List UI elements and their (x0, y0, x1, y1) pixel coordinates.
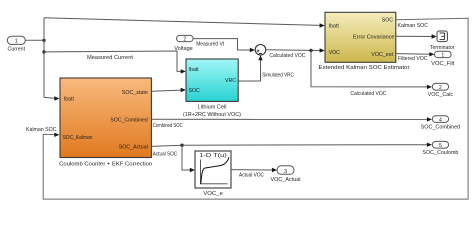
outport 4 SOC_Combined (421, 116, 461, 131)
wire Calculated VOC branch to outport 2 (311, 51, 432, 98)
wire Actual VOC to outport 3 (231, 168, 277, 179)
wire trunk vertical (43, 18, 45, 98)
svg-text:SOC_Kalman: SOC_Kalman (63, 135, 93, 141)
node junction trunk-measured-current (42, 50, 45, 53)
svg-text:Ibatt: Ibatt (189, 67, 200, 73)
outport 2 VOC_Calc (428, 83, 454, 98)
svg-text:Actual SOC: Actual SOC (153, 152, 178, 158)
wire Measured Current to Lithium Cell Ibatt (44, 51, 186, 74)
svg-text:Combined SOC: Combined SOC (153, 123, 183, 129)
wire top Ibatt feed to EKF (44, 18, 325, 28)
svg-text:5: 5 (439, 143, 442, 149)
svg-text:SOC_Combined: SOC_Combined (110, 117, 148, 123)
svg-text:Simulated VRC: Simulated VRC (262, 72, 294, 78)
wire SOC_state to Lithium Cell SOC (152, 88, 186, 92)
svg-text:SOC_Actual: SOC_Actual (119, 145, 148, 151)
svg-text:VOC_e: VOC_e (203, 191, 223, 197)
node junction trunk-inport1 (42, 39, 45, 42)
svg-text:Measured Current: Measured Current (87, 55, 134, 61)
wire inport1 to trunk (25, 39, 44, 41)
svg-text:Ibatt: Ibatt (64, 97, 75, 103)
svg-text:3: 3 (284, 169, 287, 175)
svg-text:SOC: SOC (189, 88, 200, 94)
node junction calculated-voc (309, 49, 312, 52)
svg-text:Error Covariance: Error Covariance (353, 34, 395, 40)
svg-text:Filtered VOC: Filtered VOC (398, 56, 428, 62)
svg-text:1-D T(u): 1-D T(u) (199, 153, 227, 159)
wire Measured Vt to sum (193, 39, 255, 53)
svg-text:VOC_Actual: VOC_Actual (271, 177, 301, 183)
svg-text:4: 4 (439, 117, 442, 123)
svg-text:SOC_Combined: SOC_Combined (421, 125, 461, 131)
svg-text:VOC_est: VOC_est (371, 52, 393, 58)
svg-text:Calculated VOC: Calculated VOC (350, 91, 386, 97)
svg-text:1: 1 (441, 53, 444, 59)
svg-text:Calculated VOC: Calculated VOC (269, 53, 305, 59)
svg-text:1: 1 (15, 39, 18, 45)
outport 5 SOC_Coulomb (422, 141, 458, 156)
wire Filtered VOC to outport 1 (396, 52, 434, 62)
svg-text:Ibatt: Ibatt (329, 24, 340, 30)
svg-text:Lithium Cell: Lithium Cell (198, 104, 227, 110)
wire trunk to Coulomb Counter Ibatt (44, 96, 59, 100)
wire Calculated VOC sum to EKF VOC (266, 48, 325, 59)
svg-text:SOC_Coulomb: SOC_Coulomb (422, 150, 458, 156)
node junction actual-soc (180, 144, 183, 147)
wire Combined SOC to outport 4 (152, 117, 432, 129)
inport 2 Voltage (174, 35, 193, 52)
svg-text:VOC_Calc: VOC_Calc (428, 92, 454, 98)
svg-text:VOC: VOC (329, 50, 340, 56)
svg-text:Current: Current (8, 47, 26, 53)
svg-text:2: 2 (183, 37, 186, 43)
block Extended Kalman SOC Estimator U-EKF (319, 12, 410, 71)
sum block (+/-) (255, 45, 266, 56)
svg-text:Measured Vt: Measured Vt (196, 42, 225, 48)
svg-text:Kalman SOC: Kalman SOC (26, 127, 57, 133)
wire Actual SOC to outport 5 (152, 143, 432, 158)
svg-text:Extended Kalman SOC Estimator: Extended Kalman SOC Estimator (319, 65, 410, 71)
inport 1 Current (7, 36, 25, 52)
svg-text:VRC: VRC (225, 78, 236, 84)
wire Actual SOC branch to VOC_e lookup (182, 145, 195, 172)
svg-text:VOC_Filt: VOC_Filt (431, 61, 454, 67)
svg-text:SOC_state: SOC_state (122, 90, 148, 96)
block VOC_e 1-D lookup table (195, 151, 231, 197)
block Terminator (430, 31, 455, 51)
wire Kalman SOC feedback loop (26, 18, 468, 199)
svg-text:Coulomb Counter + EKF Correcti: Coulomb Counter + EKF Correction (59, 162, 152, 168)
outport 1 VOC_Filt (431, 51, 454, 67)
outport 3 VOC_Actual (271, 166, 301, 183)
svg-text:(1R+2RC Without VOC): (1R+2RC Without VOC) (183, 112, 241, 118)
svg-text:2: 2 (439, 85, 442, 91)
svg-text:Terminator: Terminator (430, 45, 455, 51)
svg-text:Actual VOC: Actual VOC (239, 173, 264, 179)
wire Simulated VRC from Lithium Cell to sum (238, 55, 294, 81)
block Coulomb Counter + EKF Correction (59, 78, 152, 168)
wire Error Covariance to Terminator (396, 34, 437, 38)
block Lithium Cell (183, 59, 241, 118)
svg-text:Kalman SOC: Kalman SOC (398, 23, 429, 29)
svg-text:SOC: SOC (382, 18, 393, 24)
svg-text:Voltage: Voltage (174, 46, 193, 52)
